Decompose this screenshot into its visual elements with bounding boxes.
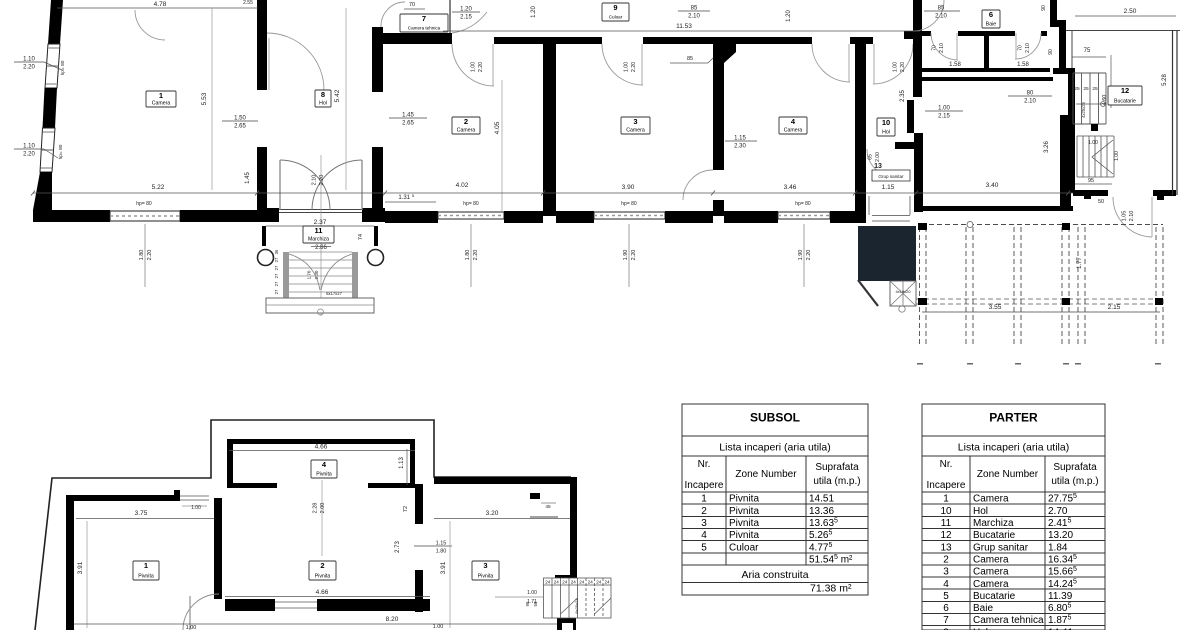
svg-text:3: 3 bbox=[701, 518, 707, 529]
svg-text:2.10: 2.10 bbox=[1025, 43, 1031, 53]
svg-text:Zone Number: Zone Number bbox=[735, 469, 797, 480]
svg-text:Pivnita: Pivnita bbox=[316, 472, 332, 478]
svg-text:5: 5 bbox=[701, 542, 707, 553]
door leaf room4 bbox=[848, 44, 850, 82]
svg-text:13: 13 bbox=[940, 542, 952, 553]
svg-text:3: 3 bbox=[633, 117, 637, 126]
svg-text:2: 2 bbox=[464, 117, 468, 126]
subsol opening 1.00 bbox=[180, 495, 209, 497]
leader bbox=[44, 62, 62, 70]
wall baie north bbox=[922, 68, 1050, 72]
svg-text:4.66: 4.66 bbox=[315, 444, 328, 451]
svg-text:14.245: 14.245 bbox=[1048, 578, 1077, 590]
svg-text:70: 70 bbox=[1018, 45, 1024, 51]
post black bbox=[1157, 193, 1164, 200]
svg-text:Camera tehnica: Camera tehnica bbox=[973, 615, 1044, 626]
window bbox=[594, 212, 665, 219]
svg-text:1.50: 1.50 bbox=[234, 116, 246, 122]
svg-text:6: 6 bbox=[989, 10, 993, 19]
door leaf bbox=[1015, 33, 1017, 59]
wall room3-room4 stub bbox=[713, 200, 724, 216]
svg-text:2.86: 2.86 bbox=[315, 245, 327, 251]
svg-text:1.05: 1.05 bbox=[1122, 211, 1128, 222]
svg-text:Hol: Hol bbox=[319, 101, 327, 107]
svg-text:72: 72 bbox=[403, 506, 409, 512]
door leaf room2 bbox=[492, 44, 494, 86]
main dim chain line bbox=[33, 192, 1073, 194]
room label 7 Camera tehnica bbox=[400, 14, 448, 32]
dim line 4.60 bbox=[1110, 55, 1112, 108]
notch line bbox=[530, 516, 558, 518]
svg-text:Grup sanitar: Grup sanitar bbox=[878, 174, 904, 179]
svg-text:Camera: Camera bbox=[784, 128, 803, 134]
svg-text:Camera: Camera bbox=[973, 579, 1009, 590]
svg-text:3.20: 3.20 bbox=[486, 510, 499, 517]
svg-text:27: 27 bbox=[274, 257, 279, 262]
svg-text:2.10: 2.10 bbox=[312, 175, 318, 186]
svg-text:2.20: 2.20 bbox=[478, 62, 484, 72]
subsol room3 right wall bbox=[570, 477, 577, 577]
svg-text:2.20: 2.20 bbox=[147, 250, 153, 261]
svg-text:1.90: 1.90 bbox=[798, 250, 804, 261]
svg-text:10: 10 bbox=[940, 506, 952, 517]
terrace top boundary bbox=[1066, 30, 1180, 32]
subsol door leaf bbox=[189, 596, 191, 630]
svg-text:Nr.: Nr. bbox=[940, 459, 953, 470]
room label 3 Camera bbox=[621, 117, 650, 134]
door leaf room3 bbox=[641, 44, 643, 85]
subsol wall right lower bbox=[555, 581, 561, 618]
wall jamb left of entrance bbox=[257, 208, 279, 222]
window left wall upper bbox=[45, 44, 60, 88]
wall exterior left corner bbox=[33, 172, 52, 210]
svg-text:80: 80 bbox=[1027, 91, 1034, 97]
svg-text:Camera: Camera bbox=[973, 567, 1009, 578]
svg-text:13.20: 13.20 bbox=[1048, 530, 1073, 541]
svg-text:2.50: 2.50 bbox=[1124, 8, 1137, 15]
door arc top right bbox=[913, 0, 944, 31]
stairs lower right bbox=[1076, 136, 1078, 177]
svg-text:5.42: 5.42 bbox=[334, 89, 341, 102]
svg-text:2.30: 2.30 bbox=[314, 270, 319, 279]
room label 4 Camera bbox=[779, 117, 807, 134]
exit sill bbox=[872, 215, 910, 217]
subsol room4 bottom right bbox=[368, 483, 415, 488]
svg-text:8x25x24: 8x25x24 bbox=[574, 598, 579, 614]
svg-text:11: 11 bbox=[315, 226, 323, 235]
wall hol-room2 lower bbox=[372, 147, 383, 211]
steps door arc left bbox=[289, 254, 320, 290]
svg-text:5.28: 5.28 bbox=[1162, 74, 1168, 86]
svg-text:Pivnita: Pivnita bbox=[729, 518, 759, 529]
entrance door leaf right bbox=[361, 160, 363, 210]
svg-text:1.45: 1.45 bbox=[402, 113, 414, 119]
svg-text:14.51: 14.51 bbox=[809, 494, 834, 505]
window arc culoar bbox=[452, 12, 487, 33]
svg-text:75: 75 bbox=[1084, 48, 1091, 54]
svg-text:1.15: 1.15 bbox=[882, 184, 895, 191]
svg-text:Suprafata: Suprafata bbox=[1053, 462, 1097, 473]
wall room1-hol upper bbox=[257, 0, 267, 90]
svg-text:50: 50 bbox=[1098, 199, 1104, 205]
window bbox=[110, 211, 180, 221]
svg-text:27: 27 bbox=[274, 265, 279, 270]
entrance steps bbox=[283, 252, 289, 298]
svg-text:2.20: 2.20 bbox=[23, 65, 35, 71]
svg-text:45: 45 bbox=[545, 504, 551, 510]
svg-text:36: 36 bbox=[274, 249, 279, 254]
svg-text:4.05: 4.05 bbox=[494, 121, 501, 134]
subsol wall step bbox=[174, 490, 180, 501]
svg-text:1.80: 1.80 bbox=[139, 250, 145, 261]
svg-text:Grup sanitar: Grup sanitar bbox=[973, 542, 1029, 553]
svg-text:2.20: 2.20 bbox=[631, 62, 637, 72]
svg-text:9: 9 bbox=[613, 3, 617, 12]
svg-text:Bucatarie: Bucatarie bbox=[973, 591, 1016, 602]
subsol room4 top wall bbox=[227, 439, 415, 444]
svg-text:2.10: 2.10 bbox=[939, 43, 945, 53]
post black bbox=[918, 223, 927, 230]
svg-text:2.65: 2.65 bbox=[402, 121, 414, 127]
wall baie south seg1 bbox=[922, 31, 931, 36]
svg-text:1.71: 1.71 bbox=[527, 599, 537, 605]
svg-text:12: 12 bbox=[940, 530, 952, 541]
svg-text:24: 24 bbox=[604, 580, 610, 585]
subsol pier bottom bbox=[557, 618, 576, 630]
svg-text:95: 95 bbox=[1088, 178, 1094, 184]
svg-text:1.31: 1.31 bbox=[398, 195, 410, 201]
retaining wall diagonal bbox=[858, 280, 878, 306]
svg-text:Incapere: Incapere bbox=[927, 480, 966, 491]
svg-text:1.20: 1.20 bbox=[460, 7, 472, 13]
wall room2-room3 bbox=[543, 44, 556, 216]
wall baie right jog bbox=[1050, 20, 1066, 27]
stairs diagonal bbox=[595, 598, 612, 614]
svg-text:85: 85 bbox=[691, 6, 698, 12]
svg-text:1.13: 1.13 bbox=[399, 457, 405, 469]
wall bottom room3 left bbox=[556, 211, 594, 223]
table PARTER bbox=[922, 404, 1105, 630]
svg-text:1.10: 1.10 bbox=[23, 144, 35, 150]
svg-text:5.53: 5.53 bbox=[201, 92, 208, 105]
svg-text:7: 7 bbox=[422, 14, 426, 23]
svg-text:2.73: 2.73 bbox=[395, 541, 401, 553]
svg-text:Bucatarie: Bucatarie bbox=[973, 530, 1016, 541]
svg-text:4: 4 bbox=[943, 579, 949, 590]
svg-text:3.55: 3.55 bbox=[989, 304, 1002, 311]
subsol room2 bottom wall right bbox=[317, 599, 430, 611]
svg-text:25: 25 bbox=[1074, 86, 1080, 92]
door arc room2 bbox=[452, 44, 494, 86]
wall connector bbox=[1053, 68, 1068, 74]
room4 axis dim line bbox=[321, 480, 323, 556]
terrace right boundary outer bbox=[1172, 30, 1174, 195]
svg-text:24: 24 bbox=[562, 580, 568, 585]
wall stair left bbox=[1060, 115, 1071, 211]
wall exterior left segment B bbox=[43, 88, 58, 128]
svg-text:2.15: 2.15 bbox=[1108, 304, 1121, 311]
svg-text:2.10: 2.10 bbox=[1024, 99, 1036, 105]
svg-text:24: 24 bbox=[554, 580, 560, 585]
subsol room4 bottom left bbox=[227, 483, 277, 488]
svg-text:Pivnita: Pivnita bbox=[315, 574, 331, 580]
svg-text:utila (m.p.): utila (m.p.) bbox=[813, 476, 860, 487]
svg-text:Pivnita: Pivnita bbox=[478, 574, 494, 580]
svg-text:8: 8 bbox=[321, 90, 325, 99]
svg-text:Zone Number: Zone Number bbox=[977, 469, 1039, 480]
svg-text:65: 65 bbox=[868, 154, 874, 160]
svg-text:2.65: 2.65 bbox=[234, 124, 246, 130]
svg-text:51.545 m²: 51.545 m² bbox=[809, 554, 853, 566]
wall bottom rooms2-3 bbox=[504, 211, 543, 223]
svg-text:hp= 80: hp= 80 bbox=[621, 201, 637, 207]
svg-text:10: 10 bbox=[882, 118, 890, 127]
svg-text:1.77: 1.77 bbox=[1077, 257, 1083, 269]
wall baie divider bbox=[984, 35, 989, 68]
svg-text:1.80: 1.80 bbox=[465, 250, 471, 261]
wall room4-hol10 bbox=[855, 37, 866, 212]
window bbox=[778, 212, 830, 219]
entrance sill bbox=[279, 209, 362, 211]
door leaf bbox=[956, 33, 958, 60]
room label 10 Hol bbox=[877, 118, 895, 136]
window dim at x=145 bbox=[144, 224, 146, 287]
window mid bbox=[41, 149, 53, 151]
svg-text:4x19x20: 4x19x20 bbox=[895, 289, 911, 294]
svg-text:Pivnita: Pivnita bbox=[138, 574, 154, 580]
wall bottom-left bbox=[33, 210, 110, 222]
room1 vertical dim line bbox=[211, 8, 213, 190]
svg-text:hp= 80: hp= 80 bbox=[58, 144, 64, 159]
window dim at x=471 bbox=[470, 224, 472, 287]
subsol wall room2-room3 lower bbox=[415, 570, 423, 612]
svg-text:11.39: 11.39 bbox=[1048, 591, 1073, 602]
wall culoar south seg2 bbox=[643, 37, 812, 44]
svg-text:hp= 80: hp= 80 bbox=[136, 201, 152, 207]
terrace left boundary bbox=[1071, 30, 1073, 68]
svg-text:2.20: 2.20 bbox=[631, 250, 637, 261]
stair arrow bbox=[1076, 103, 1102, 105]
svg-text:25: 25 bbox=[1083, 86, 1089, 92]
entrance axis line bbox=[320, 155, 322, 316]
svg-text:Hol: Hol bbox=[973, 506, 988, 517]
svg-text:11.53: 11.53 bbox=[676, 23, 692, 30]
wall bottom room2 left bbox=[385, 211, 438, 223]
svg-text:70: 70 bbox=[409, 2, 415, 8]
svg-text:1.00: 1.00 bbox=[527, 590, 537, 596]
svg-text:Lista incaperi (aria utila): Lista incaperi (aria utila) bbox=[958, 442, 1069, 454]
wall hol10 right upper bbox=[913, 0, 922, 97]
wall bottom room4 right bbox=[830, 211, 866, 223]
svg-text:Lista incaperi (aria utila): Lista incaperi (aria utila) bbox=[719, 442, 830, 454]
steps door arc right bbox=[321, 254, 352, 290]
svg-text:Bucatarie: Bucatarie bbox=[1114, 99, 1136, 105]
svg-text:hp= 80: hp= 80 bbox=[795, 201, 811, 207]
svg-text:1: 1 bbox=[144, 561, 148, 570]
svg-text:utila (m.p.): utila (m.p.) bbox=[1051, 476, 1098, 487]
svg-text:2.10: 2.10 bbox=[1129, 211, 1135, 222]
room label 2 Camera bbox=[452, 117, 480, 134]
svg-text:27.755: 27.755 bbox=[1048, 493, 1077, 505]
wall exterior left segment A bbox=[48, 0, 63, 44]
svg-text:2.28: 2.28 bbox=[313, 503, 319, 514]
svg-text:4.78: 4.78 bbox=[154, 1, 167, 8]
svg-text:1.15: 1.15 bbox=[436, 541, 447, 547]
subsol wall room1-room2 bbox=[214, 498, 222, 599]
svg-text:24: 24 bbox=[571, 580, 577, 585]
wall bottom room3 right bbox=[665, 211, 713, 223]
room label 1 Pivnita bbox=[133, 561, 159, 580]
room2 vertical dim line bbox=[501, 80, 503, 212]
svg-text:1.00: 1.00 bbox=[433, 624, 444, 630]
svg-text:27: 27 bbox=[274, 289, 279, 294]
svg-text:25: 25 bbox=[1092, 86, 1098, 92]
dim line 11.53 bbox=[443, 30, 920, 32]
wall culoar south seg3 bbox=[850, 37, 873, 44]
window dim at x=804 bbox=[803, 224, 805, 287]
svg-text:2.55: 2.55 bbox=[243, 0, 253, 6]
post black small bbox=[1091, 124, 1098, 131]
window dim at x=629 bbox=[628, 224, 630, 287]
door arc room4 bbox=[812, 44, 850, 82]
svg-text:1.00: 1.00 bbox=[893, 62, 899, 72]
svg-text:Incapere: Incapere bbox=[685, 480, 724, 491]
svg-text:Pivnita: Pivnita bbox=[729, 506, 759, 517]
subsol room2 bottom wall left bbox=[225, 599, 275, 611]
subsol wall jog bbox=[555, 575, 577, 581]
leader bbox=[44, 149, 58, 158]
svg-text:7: 7 bbox=[943, 615, 949, 626]
svg-text:24: 24 bbox=[596, 580, 602, 585]
svg-text:Pivnita: Pivnita bbox=[729, 530, 759, 541]
svg-text:4.60: 4.60 bbox=[1102, 95, 1108, 106]
dim line 3.55/2.15 bbox=[922, 311, 1160, 313]
svg-text:11: 11 bbox=[941, 518, 952, 529]
svg-text:15.665: 15.665 bbox=[1048, 566, 1077, 578]
svg-text:3.75: 3.75 bbox=[135, 510, 148, 517]
wall baie south seg2 bbox=[958, 31, 1015, 36]
svg-text:27: 27 bbox=[274, 273, 279, 278]
svg-text:2.20: 2.20 bbox=[806, 250, 812, 261]
svg-text:3.46: 3.46 bbox=[784, 184, 797, 191]
svg-text:2.20: 2.20 bbox=[23, 152, 35, 158]
wall grup sanitar right bbox=[914, 133, 923, 212]
svg-text:2.00: 2.00 bbox=[875, 152, 881, 162]
svg-text:Camera: Camera bbox=[626, 128, 645, 134]
svg-text:Marchiza: Marchiza bbox=[308, 237, 329, 243]
exit corridor left line bbox=[868, 196, 870, 215]
wall camera tehnica bottom bbox=[383, 33, 452, 44]
svg-text:3.91: 3.91 bbox=[77, 561, 84, 574]
svg-text:85: 85 bbox=[687, 56, 693, 62]
svg-text:Camera: Camera bbox=[973, 494, 1009, 505]
room label 9 Culoar bbox=[602, 3, 629, 21]
room label 8 Hol bbox=[315, 90, 331, 107]
svg-text:2.20: 2.20 bbox=[473, 250, 479, 261]
subsol wall left bbox=[66, 495, 74, 630]
svg-text:1.45: 1.45 bbox=[245, 172, 251, 184]
svg-text:3: 3 bbox=[483, 561, 487, 570]
wall terrace-room bottom right bbox=[1153, 190, 1176, 196]
svg-text:13.36: 13.36 bbox=[809, 506, 834, 517]
svg-text:4.66: 4.66 bbox=[316, 589, 329, 596]
wall terrace-room bottom left bbox=[1073, 190, 1108, 196]
svg-text:Baie: Baie bbox=[973, 603, 993, 614]
wall bottom right section bbox=[916, 206, 1073, 211]
svg-text:1.70: 1.70 bbox=[307, 270, 312, 279]
svg-text:2.20: 2.20 bbox=[900, 62, 906, 72]
svg-text:24: 24 bbox=[545, 580, 551, 585]
wall room1-hol lower bbox=[257, 147, 267, 210]
svg-text:2.70: 2.70 bbox=[1048, 506, 1068, 517]
svg-text:2.30: 2.30 bbox=[734, 144, 746, 150]
svg-text:1.00: 1.00 bbox=[186, 625, 197, 630]
svg-text:90: 90 bbox=[1041, 5, 1047, 11]
window bbox=[438, 212, 504, 219]
subsol room4 left wall bbox=[227, 439, 233, 488]
stairs upper right bbox=[1072, 73, 1074, 124]
culoar opening sill bbox=[275, 601, 317, 603]
table SUBSOL bbox=[682, 404, 868, 595]
subsol wall room1 top bbox=[66, 495, 176, 501]
wall hol10-grup sanitar bbox=[895, 142, 923, 149]
wall hol-camera tehnica bbox=[372, 27, 383, 92]
svg-text:74: 74 bbox=[358, 234, 364, 240]
terrace dashed horizontal bottom bbox=[916, 298, 1163, 300]
svg-text:2.37: 2.37 bbox=[314, 219, 327, 226]
wall stub left of hol10 wall bbox=[904, 31, 913, 39]
svg-text:4: 4 bbox=[701, 530, 707, 541]
subsol door arc culoar-room1 bbox=[183, 594, 219, 630]
svg-text:Pivnita: Pivnita bbox=[729, 494, 759, 505]
svg-text:1: 1 bbox=[159, 91, 163, 100]
svg-text:1.00: 1.00 bbox=[471, 62, 477, 72]
room label 2 Pivnita bbox=[309, 561, 336, 580]
wall hol10 right mid bbox=[907, 100, 914, 133]
door arc hol8-room1 bbox=[267, 33, 324, 90]
door arc baie left bbox=[931, 33, 958, 60]
room label 3 Pivnita bbox=[472, 561, 499, 580]
subsol stairs bbox=[544, 578, 612, 618]
svg-text:Camera: Camera bbox=[973, 554, 1009, 565]
subsol wall room2-room3 upper bbox=[415, 484, 423, 524]
svg-text:Camera: Camera bbox=[152, 101, 171, 107]
room label 4 Pivnita subsol bbox=[311, 460, 337, 478]
svg-text:4.02: 4.02 bbox=[456, 182, 469, 189]
window mid bbox=[47, 65, 59, 67]
door leaf hol10 bbox=[873, 44, 875, 84]
marchiza wall left bbox=[262, 226, 266, 246]
svg-text:1.00: 1.00 bbox=[624, 62, 630, 72]
svg-text:Nr.: Nr. bbox=[698, 459, 711, 470]
stairs diagonal bbox=[561, 598, 578, 614]
subsol room4 right wall bbox=[410, 439, 415, 488]
svg-text:70: 70 bbox=[932, 45, 938, 51]
marchiza wall right bbox=[374, 226, 378, 246]
terrace dashed horizontal top bbox=[921, 224, 1163, 226]
column left bbox=[258, 250, 274, 266]
svg-text:1.84: 1.84 bbox=[1048, 542, 1068, 553]
svg-text:PARTER: PARTER bbox=[989, 411, 1038, 425]
svg-text:Suprafata: Suprafata bbox=[815, 462, 859, 473]
svg-text:1.80: 1.80 bbox=[436, 549, 447, 555]
svg-text:1.00: 1.00 bbox=[1088, 140, 1098, 146]
svg-text:2: 2 bbox=[943, 554, 949, 565]
svg-text:1: 1 bbox=[701, 494, 707, 505]
svg-text:90: 90 bbox=[1048, 49, 1054, 55]
window left wall lower bbox=[40, 128, 55, 172]
room label 12 Bucatarie bbox=[1108, 86, 1142, 105]
